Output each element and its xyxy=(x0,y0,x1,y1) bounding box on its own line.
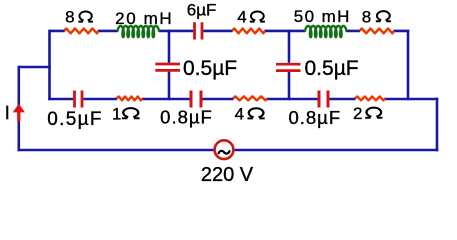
svg-text:0.5µF: 0.5µF xyxy=(305,57,359,80)
resistor 2 ohm xyxy=(355,97,385,101)
svg-text:6µF: 6µF xyxy=(187,0,217,19)
svg-text:1: 1 xyxy=(112,104,121,123)
capacitor 0.5 uF branch 2 xyxy=(276,64,301,70)
inductor 20 mH xyxy=(118,26,160,37)
wire branch 1 vertical xyxy=(168,30,171,101)
resistor 1 ohm xyxy=(117,97,143,101)
svg-text:4: 4 xyxy=(235,105,244,124)
svg-text:220 V: 220 V xyxy=(201,164,254,186)
resistor 4 ohm row 2 xyxy=(233,96,267,100)
resistor 4 ohm top xyxy=(232,29,265,34)
wire branch 2 vertical xyxy=(288,30,291,101)
svg-text:4: 4 xyxy=(237,8,246,27)
wire bottom horizontal xyxy=(18,149,439,152)
wire right outer vertical xyxy=(436,98,439,152)
wire left connector horizontal xyxy=(18,66,51,69)
svg-text:0.8µF: 0.8µF xyxy=(160,107,213,128)
svg-text:0.5µF: 0.5µF xyxy=(47,109,102,130)
resistor 8 ohm top-left xyxy=(64,29,99,34)
svg-text:8: 8 xyxy=(362,7,371,26)
svg-text:8: 8 xyxy=(65,8,74,27)
svg-text:0.5µF: 0.5µF xyxy=(183,57,237,80)
capacitor 0.8 uF row 2 right xyxy=(319,91,328,108)
wire left outer vertical xyxy=(17,66,20,152)
label I xyxy=(6,106,8,120)
svg-text:0.8µF: 0.8µF xyxy=(288,107,341,128)
current arrow I xyxy=(17,112,20,122)
capacitor 0.5 uF row 2 xyxy=(75,91,83,108)
ac source 220 V xyxy=(215,140,234,159)
svg-text:20 mH: 20 mH xyxy=(115,9,173,28)
svg-text:50 mH: 50 mH xyxy=(294,7,351,26)
resistor 8 ohm top-right xyxy=(360,29,395,34)
capacitor 0.8 uF row 2 left xyxy=(191,91,201,108)
capacitor 6 uF xyxy=(195,22,203,39)
wire middle row horizontal segments xyxy=(48,98,438,101)
wire right inner vertical xyxy=(407,30,410,101)
inductor 50 mH xyxy=(305,26,347,37)
ac source tilde xyxy=(219,151,230,154)
capacitor 0.5 uF branch 1 xyxy=(155,64,180,70)
wire top horizontal segments xyxy=(50,30,410,33)
svg-text:2: 2 xyxy=(353,104,362,123)
wire left inner vertical xyxy=(48,30,51,101)
